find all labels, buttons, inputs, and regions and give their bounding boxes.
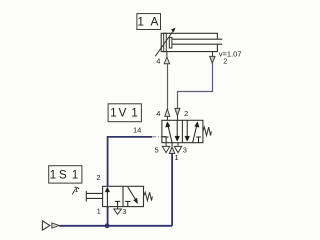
1S1 return spring <box>144 192 153 200</box>
1S1 left square: blocked port 3 <box>115 201 120 206</box>
flow direction arrow on supply line <box>52 223 60 228</box>
svg-text:1: 1 <box>72 167 79 181</box>
wire: pilot line 1S1 port 2 up and right to 1V1 port 14 <box>107 137 153 187</box>
cylinder piston <box>164 33 167 51</box>
wire: branch junction dot on supply line <box>105 223 110 228</box>
valve 1V1 label box <box>108 104 141 122</box>
svg-text:S: S <box>59 167 67 181</box>
cylinder piston rod <box>172 39 222 44</box>
svg-text:1: 1 <box>97 206 101 215</box>
1V1 top port labels <box>156 109 188 118</box>
1V1 port 4 flow arrow (hollow, up) <box>165 109 170 120</box>
cylinder 1A label box <box>137 14 161 30</box>
1V1 exhaust port 3 triangle <box>174 143 181 153</box>
1V1 bottom port labels <box>155 146 187 162</box>
svg-text:4: 4 <box>156 57 160 66</box>
1V1 left square: flow path 1 to 4 with arrow <box>166 122 173 143</box>
svg-text:1: 1 <box>175 153 179 162</box>
manual-click icon of 1S1 <box>72 187 79 194</box>
wire: supply line from source to junction to 1V1 port 1 <box>59 153 172 226</box>
1V1 left square: blocked port 5 <box>164 137 169 143</box>
1V1 right square: flow path 1 to 2 with arrow <box>193 122 200 143</box>
svg-text:14: 14 <box>133 125 141 134</box>
1S1 right square: flow path 2 to 3 with arrow <box>128 187 138 204</box>
valve 1V1 body (5/2-way valve) <box>162 120 203 142</box>
valve 1S1 label box <box>49 166 82 183</box>
svg-text:4: 4 <box>156 109 160 118</box>
1S1 exhaust port 3 triangle <box>114 207 122 215</box>
cylinder port labels <box>156 56 227 65</box>
cylinder 1A body <box>161 33 217 51</box>
svg-text:1: 1 <box>110 105 117 119</box>
1V1 port 1 flow arrow (hollow, up) <box>169 143 175 154</box>
svg-text:2: 2 <box>184 109 188 118</box>
1V1 pilot connection tick <box>162 136 166 138</box>
svg-text:1: 1 <box>131 105 138 119</box>
svg-text:3: 3 <box>122 207 126 216</box>
1V1 exhaust port 5 triangle <box>162 143 169 153</box>
1S1 left square: flow path 1 to 2 with arrow <box>105 187 110 207</box>
1V1 port 2 flow arrow (hollow, down) <box>175 108 180 120</box>
cylinder adjustable cushioning arrow <box>155 28 175 57</box>
svg-text:1: 1 <box>137 14 144 28</box>
svg-text:V: V <box>118 105 126 119</box>
1V1 right square: flow path 4 to 5 with arrow <box>185 120 190 141</box>
wire: 1V1 port 2 line up, jog right, to cylinder port 2 <box>178 63 213 110</box>
svg-text:2: 2 <box>96 173 100 182</box>
valve 1S1 body (3/2-way valve) <box>103 186 144 206</box>
svg-text:A: A <box>150 14 158 28</box>
cylinder port 4 stub and flow arrow (hollow, up) <box>164 52 169 64</box>
1S1 push button actuator <box>86 191 102 202</box>
svg-text:5: 5 <box>155 146 159 155</box>
compressed air source triangle <box>42 221 50 230</box>
1V1 left square: flow path 2 to 3 with arrow <box>175 120 180 141</box>
1V1 return spring <box>203 127 212 135</box>
cylinder port 2 stub and flow arrow (hollow, down) <box>210 52 215 64</box>
wire: dash-dot pilot connection into 1V1 port 14 <box>153 136 162 138</box>
1S1 port labels <box>96 173 126 216</box>
cylinder cushioning boss <box>169 37 172 48</box>
wire: 1V1 port 4 line up to cylinder port 4 <box>167 63 169 116</box>
1S1 right square: blocked port 1 <box>125 201 130 206</box>
1V1 right square: blocked port 3 <box>196 137 201 143</box>
svg-text:3: 3 <box>183 146 187 155</box>
svg-text:v=1.07: v=1.07 <box>219 50 242 59</box>
svg-text:1: 1 <box>50 167 57 181</box>
wire: junction to 1S1 port 1 <box>107 206 109 225</box>
